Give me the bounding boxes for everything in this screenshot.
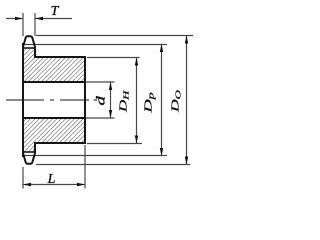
svg-text:T: T [51, 4, 60, 19]
svg-text:d: d [94, 96, 107, 105]
svg-text:L: L [47, 172, 56, 187]
